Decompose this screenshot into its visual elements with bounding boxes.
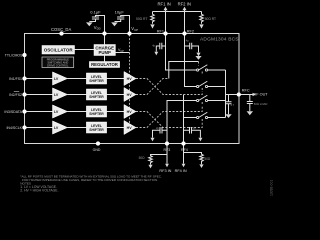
svg-text:COSC_DA: COSC_DA (51, 27, 71, 32)
svg-text:RF4: RF4 (181, 148, 188, 152)
svg-text:HV: HV (127, 110, 133, 114)
svg-text:FOR HIGHER IMPEDANCE USE CASES: FOR HIGHER IMPEDANCE USE CASES, REFER TO… (22, 178, 158, 182)
svg-text:RF1 IN: RF1 IN (158, 2, 171, 7)
svg-text:HV: HV (127, 126, 133, 130)
svg-text:ADGM1304 BCS: ADGM1304 BCS (200, 37, 239, 43)
svg-text:LV: LV (54, 77, 59, 81)
svg-text:LV: LV (54, 126, 59, 130)
svg-text:50Ω LOAD: 50Ω LOAD (254, 102, 268, 106)
svg-text:HV: HV (127, 77, 133, 81)
svg-text:RF3 IN: RF3 IN (159, 169, 171, 173)
svg-text:0.1µF: 0.1µF (90, 9, 101, 14)
svg-text:GND: GND (93, 148, 101, 152)
svg-text:RF2 IN: RF2 IN (178, 2, 191, 7)
svg-text:4.7: 4.7 (231, 103, 235, 107)
svg-text:RF4 IN: RF4 IN (175, 169, 187, 173)
svg-text:2. HV = HIGH VOLTAGE.: 2. HV = HIGH VOLTAGE. (20, 189, 58, 193)
svg-text:SHIFTER: SHIFTER (89, 128, 104, 132)
svg-text:RFC: RFC (242, 88, 250, 92)
svg-text:TTL/CMOS: TTL/CMOS (5, 54, 23, 58)
svg-text:HV: HV (127, 93, 133, 97)
svg-text:DRIVE CONTROL: DRIVE CONTROL (47, 63, 69, 67)
svg-text:IN1/FS1: IN1/FS1 (9, 77, 22, 81)
svg-text:LEVEL: LEVEL (91, 124, 102, 128)
svg-text:50Ω RT: 50Ω RT (136, 17, 147, 21)
svg-text:50Ω RT: 50Ω RT (205, 17, 216, 21)
svg-text:LV: LV (54, 93, 59, 97)
svg-text:SHIFTER: SHIFTER (89, 112, 104, 116)
svg-text:IN4/SCLK: IN4/SCLK (6, 126, 22, 130)
svg-text:SHIFTER: SHIFTER (89, 95, 104, 99)
svg-text:IN3/SDATA: IN3/SDATA (4, 110, 22, 114)
svg-text:10µF: 10µF (115, 9, 125, 14)
svg-text:LV: LV (54, 110, 59, 114)
svg-text:RF OUT: RF OUT (254, 92, 269, 96)
svg-text:RF2: RF2 (187, 29, 194, 33)
svg-text:PUMP: PUMP (98, 50, 111, 55)
svg-text:50Ω: 50Ω (139, 156, 146, 160)
svg-text:LEVEL: LEVEL (91, 108, 102, 112)
svg-text:IN2/FS2: IN2/FS2 (9, 93, 22, 97)
svg-text:LEVEL: LEVEL (91, 91, 102, 95)
svg-text:LEVEL: LEVEL (91, 75, 102, 79)
svg-text:REGULATOR: REGULATOR (91, 62, 119, 67)
svg-text:SHIFTER: SHIFTER (89, 79, 104, 83)
svg-text:RF1: RF1 (157, 29, 164, 33)
svg-text:13092-001: 13092-001 (270, 180, 274, 196)
svg-text:50Ω: 50Ω (204, 157, 211, 161)
svg-text:OSCILLATOR: OSCILLATOR (44, 48, 74, 53)
